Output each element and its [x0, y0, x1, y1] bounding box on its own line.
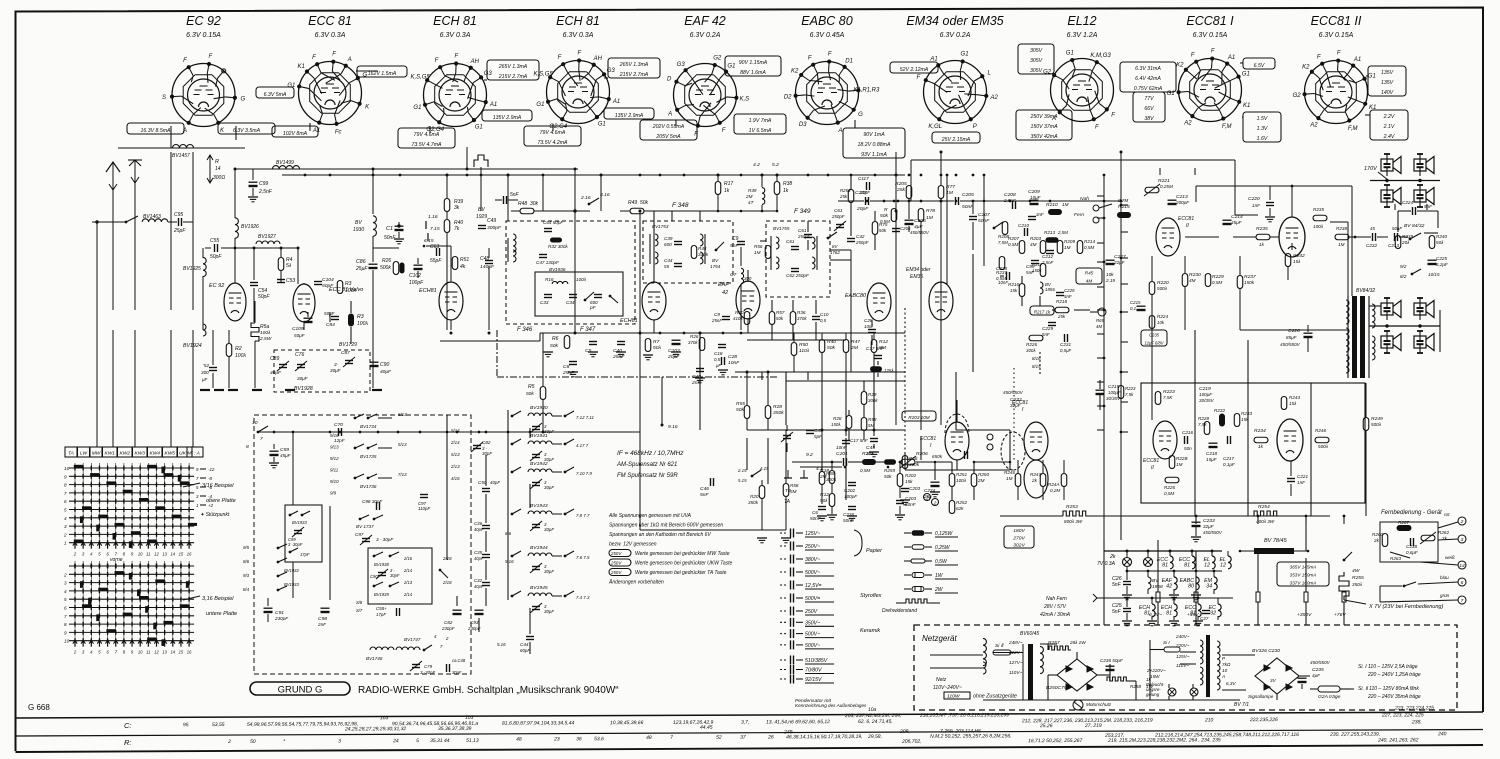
svg-text:R213: R213	[1044, 230, 1055, 235]
antenna 2 symbol (earth aerial)	[134, 160, 136, 310]
svg-text:C225: C225	[1436, 256, 1447, 261]
capacitor C216 50n	[1184, 436, 1186, 444]
svg-text:1930: 1930	[353, 227, 364, 233]
svg-text:T2: T2	[785, 488, 791, 494]
wire coil rows vertical	[507, 410, 509, 600]
svg-text:210: 210	[1204, 717, 1214, 723]
svg-text:R26: R26	[382, 258, 391, 264]
bottom coil row BV1746/BV1747	[370, 647, 394, 650]
svg-text:AM-Spulensatz Nr 621: AM-Spulensatz Nr 621	[616, 462, 677, 468]
svg-text:+350V: +350V	[1297, 612, 1312, 618]
svg-text:44,45: 44,45	[700, 725, 713, 731]
svg-text:RADIO-WERKE GmbH. Schaltplan: RADIO-WERKE GmbH. Schaltplan „Musikschra…	[358, 685, 619, 696]
resistor R208 7.5M	[1002, 222, 1008, 235]
motor protection switch	[1073, 700, 1083, 710]
svg-text:Fc: Fc	[335, 130, 342, 136]
svg-text:9: 9	[64, 474, 67, 479]
lighting transformer core	[1206, 635, 1210, 697]
svg-text:C18: C18	[714, 351, 723, 356]
svg-text:R243: R243	[1289, 395, 1300, 400]
capacitor C49b 5pF	[806, 430, 814, 432]
wire antenna feeds to matrix	[96, 330, 98, 447]
capacitor C89 40pF trimmer	[279, 364, 287, 366]
svg-text:R2: R2	[235, 346, 242, 352]
svg-text:6.3V 0.3A: 6.3V 0.3A	[440, 32, 471, 39]
svg-text:R55: R55	[736, 401, 745, 407]
coil F347 winding	[552, 281, 568, 284]
coil BV1924	[203, 324, 206, 336]
svg-text:R49: R49	[748, 188, 757, 193]
svg-text:grün: grün	[1440, 593, 1450, 598]
svg-text:R207: R207	[1008, 236, 1019, 241]
wire b+ verticals right of centre	[895, 211, 897, 425]
svg-text:5nF: 5nF	[1026, 270, 1035, 275]
svg-text:4M: 4M	[1189, 278, 1196, 283]
switch 2.16/3.16	[573, 209, 576, 212]
svg-text:ECC 81: ECC 81	[308, 14, 352, 28]
resistor R217 1k boxed	[1030, 306, 1054, 315]
svg-text:C7: C7	[730, 272, 737, 278]
svg-text:300Ω: 300Ω	[213, 175, 225, 181]
svg-text:270V: 270V	[1012, 535, 1025, 541]
svg-text:C221: C221	[1297, 474, 1308, 479]
svg-text:2nF: 2nF	[317, 622, 327, 627]
svg-text:77V: 77V	[1144, 96, 1154, 102]
triode ECC81 Valvo	[293, 284, 315, 322]
svg-text:A1: A1	[489, 102, 497, 108]
svg-text:10k: 10k	[1106, 272, 1114, 277]
svg-text:0,5W: 0,5W	[935, 559, 948, 565]
coil L2 choke	[762, 188, 765, 205]
svg-text:14: 14	[170, 552, 175, 557]
wire remote leads	[1438, 522, 1458, 528]
svg-text:BV1943: BV1943	[530, 503, 548, 509]
svg-text:60pF: 60pF	[520, 648, 530, 653]
svg-text:5.16: 5.16	[505, 559, 514, 564]
svg-text:R262: R262	[1438, 530, 1449, 535]
wire af row	[747, 339, 846, 341]
svg-text:R232: R232	[1214, 408, 1225, 413]
svg-text:3k: 3k	[454, 205, 460, 211]
svg-text:52: 52	[716, 735, 722, 741]
capacitor C226 85uF 450/550V	[1304, 332, 1313, 334]
capacitor C214 45uF	[1223, 219, 1232, 221]
svg-text:8: 8	[64, 622, 67, 627]
svg-text:3: 3	[338, 738, 341, 744]
svg-text:BV 78/45: BV 78/45	[1264, 538, 1288, 544]
IF transformer F348 dashed box	[643, 221, 733, 283]
legend Styroflex caps	[780, 584, 787, 586]
capacitor C218 15uF	[1209, 442, 1218, 444]
svg-text:50λ: 50λ	[820, 498, 828, 503]
capacitor C205 50nF	[955, 197, 957, 205]
wire C236 to R258	[1109, 675, 1111, 681]
svg-text:103: 103	[380, 715, 389, 721]
svg-text:R48: R48	[518, 201, 527, 207]
svg-text:2×220V~: 2×220V~	[1146, 668, 1166, 673]
bridge rectifier B250C75A	[1057, 659, 1097, 691]
svg-text:365V 145mA: 365V 145mA	[1290, 565, 1317, 570]
svg-text:R20: R20	[750, 494, 759, 499]
svg-text:G 668: G 668	[28, 703, 50, 712]
antenna bus wire	[118, 147, 245, 149]
svg-text:C226: C226	[1288, 328, 1300, 334]
table rows rotated group	[183, 704, 1447, 749]
capacitor C206 4uF 450/550V	[905, 219, 914, 221]
svg-text:F: F	[722, 128, 726, 134]
capacitor C70 12pF	[338, 428, 340, 436]
svg-text:A1: A1	[612, 99, 620, 105]
resistor R224 10k	[1149, 316, 1155, 329]
resistor R45b 1M boxed	[1076, 268, 1102, 284]
capacitor C27	[1202, 610, 1210, 612]
terminal pair circles	[987, 434, 993, 440]
wire FM bus upper	[235, 168, 578, 170]
svg-text:F,M: F,M	[1222, 124, 1232, 130]
svg-text:50nF: 50nF	[962, 204, 974, 210]
wire det col	[785, 430, 787, 484]
svg-text:50pF: 50pF	[322, 283, 334, 289]
capacitor C220 1nF	[1266, 202, 1274, 204]
svg-text:C97: C97	[355, 532, 364, 537]
wire coupling	[956, 429, 1010, 431]
svg-text:205, 237,N2,M3,2M, 264,: 205, 237,N2,M3,2M, 264,	[844, 713, 901, 719]
capacitor C49 300pF	[478, 225, 486, 227]
wire secondary to bridge2	[1222, 654, 1255, 656]
top right corner wires	[1159, 168, 1161, 175]
svg-text:6.3V 1.2A: 6.3V 1.2A	[1067, 32, 1098, 39]
pentode ECH81 IF amp	[642, 282, 666, 320]
resistor R59 300	[819, 472, 825, 485]
svg-text:BV1924: BV1924	[183, 343, 202, 349]
svg-text:G: G	[241, 96, 246, 102]
svg-text:51,13: 51,13	[466, 738, 479, 744]
svg-text:C5: C5	[585, 348, 592, 354]
svg-text:2.2V: 2.2V	[1383, 114, 1395, 120]
svg-text:BV1927: BV1927	[258, 234, 276, 240]
svg-text:53,6: 53,6	[594, 736, 604, 742]
wire osc bus	[258, 431, 640, 433]
svg-text:A: A	[1221, 674, 1225, 679]
svg-text:R49: R49	[628, 200, 637, 206]
svg-text:R22B: R22B	[1176, 456, 1188, 461]
coil BV1457	[173, 145, 194, 148]
wire xtras	[807, 221, 809, 232]
svg-text:BV: BV	[355, 220, 362, 226]
svg-text:20pF: 20pF	[856, 206, 869, 212]
svg-text:KW2: KW2	[120, 451, 131, 457]
switch BV1754	[715, 249, 718, 252]
svg-text:Werte gemessen bei gedrückter: Werte gemessen bei gedrückter UKW Taste	[635, 561, 732, 567]
svg-text:BV60/45: BV60/45	[1020, 631, 1039, 637]
wire det2	[863, 381, 865, 391]
capacitor C28b 10nF	[868, 329, 876, 331]
capacitor 5nF top	[503, 196, 505, 204]
svg-text:2/18: 2/18	[442, 580, 452, 585]
svg-text:2/14: 2/14	[403, 592, 413, 597]
svg-text:230pF: 230pF	[274, 616, 289, 621]
triode EABC80 detector	[867, 283, 891, 321]
svg-text:R16: R16	[545, 277, 554, 282]
svg-text:100μF: 100μF	[1108, 390, 1121, 395]
svg-text:79V 4.6mA: 79V 4.6mA	[414, 132, 440, 138]
svg-text:135V: 135V	[1381, 80, 1394, 86]
svg-text:800λ 3W: 800λ 3W	[1064, 519, 1083, 524]
svg-text:2/16: 2/16	[403, 556, 413, 561]
svg-text:KW3: KW3	[135, 451, 146, 457]
heater EL12 row1a	[1212, 556, 1215, 569]
svg-text:7: 7	[64, 614, 67, 619]
svg-text:EAF 42: EAF 42	[684, 14, 726, 28]
resistor R233 15k	[1234, 414, 1240, 427]
resistor R230 4M	[1182, 274, 1188, 287]
svg-text:R223: R223	[1125, 386, 1136, 391]
svg-text:N,M,2 50,252, 255,257,26 8,2M,: N,M,2 50,252, 255,257,26 8,2M,256,	[930, 733, 1011, 739]
svg-text:1M: 1M	[1062, 202, 1069, 207]
capacitor C44 55pF	[674, 263, 682, 265]
svg-text:25k: 25k	[1057, 314, 1066, 319]
svg-text:C53: C53	[286, 278, 295, 284]
svg-text:10nF: 10nF	[728, 360, 740, 366]
capacitor C55 50pF	[205, 247, 211, 249]
svg-text:2M: 2M	[819, 474, 827, 479]
circled 2 terminal	[924, 494, 931, 501]
svg-text:1.6V: 1.6V	[1257, 136, 1268, 142]
svg-text:0,25W: 0,25W	[935, 545, 951, 551]
svg-text:R32 300λ: R32 300λ	[548, 244, 568, 249]
antenna 1 symbol	[112, 162, 114, 310]
svg-text:102V 8mA: 102V 8mA	[283, 131, 308, 137]
resistor R263	[1390, 552, 1410, 558]
svg-text:4M: 4M	[1030, 242, 1037, 247]
svg-text:C213: C213	[1388, 243, 1399, 248]
svg-text:5/13: 5/13	[398, 442, 407, 447]
svg-text:50pF: 50pF	[210, 254, 222, 260]
trimmer C82 3-30pF	[473, 445, 481, 447]
pin connector leads tube row	[170, 126, 172, 148]
svg-text:0,5M: 0,5M	[860, 468, 870, 473]
svg-text:R224: R224	[1157, 314, 1168, 319]
svg-text:1.16: 1.16	[428, 214, 438, 220]
svg-text:302V: 302V	[1013, 543, 1025, 549]
capacitor C229 5nF	[1048, 322, 1056, 324]
wire mains input	[930, 667, 983, 669]
capacitor C227 22pF	[1106, 259, 1115, 261]
capacitor C203b	[901, 488, 909, 490]
svg-text:100λ: 100λ	[956, 478, 967, 483]
capacitor C109 50uF	[304, 317, 313, 319]
capacitor C232 crossover	[1372, 233, 1374, 241]
capacitor column C36/C35/C32	[482, 525, 490, 527]
svg-text:3nF: 3nF	[1036, 212, 1044, 217]
svg-text:127V~: 127V~	[1009, 660, 1023, 665]
legend resistor wattages	[904, 532, 911, 534]
junction dots AF bus	[844, 466, 847, 469]
svg-text:F: F	[332, 52, 336, 58]
svg-text:88V 1.6mA: 88V 1.6mA	[740, 70, 766, 76]
svg-text:C1: C1	[386, 226, 393, 232]
capacitor C213 crossover	[1394, 233, 1396, 241]
resistor R3 100k	[349, 314, 354, 326]
resistor R30 410ohm	[744, 312, 750, 325]
svg-text:C17 5nF: C17 5nF	[866, 346, 885, 351]
capacitor C52 300pF	[209, 367, 217, 369]
svg-text:50k: 50k	[640, 200, 649, 206]
svg-text:R56: R56	[754, 244, 763, 249]
svg-text:R263: R263	[1390, 556, 1401, 561]
svg-text:2: 2	[445, 636, 449, 641]
svg-text:G2: G2	[713, 55, 722, 61]
svg-text:2: 2	[227, 739, 231, 745]
svg-text:C98 30pF: C98 30pF	[362, 499, 383, 504]
svg-text:9.2: 9.2	[806, 452, 813, 458]
matrix lower bottom pin row	[74, 641, 76, 647]
svg-text:C218: C218	[1206, 451, 1217, 456]
svg-text:206,702,: 206,702,	[901, 739, 921, 745]
svg-text:90V 1.15mA: 90V 1.15mA	[739, 60, 768, 66]
svg-text:350k: 350k	[773, 410, 784, 416]
svg-text:0,5μF: 0,5μF	[1060, 348, 1072, 353]
svg-text:100k: 100k	[345, 288, 356, 294]
svg-text:vorne: vorne	[110, 557, 123, 563]
resistor R77 1M	[938, 186, 944, 199]
svg-text:0,7M: 0,7M	[1118, 198, 1128, 203]
svg-text:BV1941: BV1941	[530, 433, 548, 439]
svg-text:103: 103	[465, 715, 474, 721]
svg-text:6.3V 0.2A: 6.3V 0.2A	[690, 32, 721, 39]
coil BV1925 vertical	[202, 248, 204, 258]
resistor R201 0.5M	[863, 460, 876, 465]
left switch sub-box	[285, 505, 322, 562]
svg-text:5/13: 5/13	[451, 452, 460, 457]
capacitor C26 5nF	[1123, 581, 1131, 583]
resistor R236 100ohm	[1313, 215, 1327, 221]
wire bus verticals above	[1157, 540, 1159, 592]
wire block verticals	[292, 432, 294, 505]
resistor R255 350ohm 4W	[1343, 559, 1346, 562]
svg-text:ohne Zusatzgeräte: ohne Zusatzgeräte	[973, 694, 1017, 700]
capacitor C236 50uF	[1106, 665, 1115, 667]
svg-text:8/4: 8/4	[243, 587, 250, 592]
svg-text:C9: C9	[732, 236, 739, 242]
svg-text:32μF: 32μF	[1203, 524, 1215, 529]
svg-text:2: 2	[1460, 519, 1464, 525]
svg-text:R238: R238	[1336, 226, 1347, 231]
potentiometer R221 0.25M	[1145, 187, 1159, 193]
svg-text:305V: 305V	[1030, 48, 1043, 54]
capacitor C206b	[892, 228, 900, 230]
svg-text:R214: R214	[1084, 239, 1095, 244]
svg-text:240V~: 240V~	[1175, 634, 1190, 639]
svg-text:C76: C76	[295, 352, 304, 358]
svg-text:11: 11	[146, 552, 150, 557]
svg-text:G1: G1	[1368, 73, 1376, 79]
resistor R235 1k	[1256, 234, 1270, 240]
svg-text:9/16: 9/16	[330, 433, 339, 438]
svg-text:380V~: 380V~	[805, 557, 820, 563]
coil BV1856	[1040, 282, 1043, 294]
svg-text:40pF: 40pF	[474, 584, 484, 589]
capacitor C58 250pF	[804, 234, 812, 236]
capacitor C76 trimmer	[297, 364, 305, 366]
svg-text:25pF: 25pF	[173, 228, 186, 234]
extra bus y211 dots	[717, 210, 720, 213]
wire af jack bus	[800, 466, 842, 468]
svg-text:81: 81	[1184, 563, 1190, 569]
boxed 110W label	[944, 692, 970, 699]
svg-text:C39: C39	[664, 236, 673, 241]
svg-text:2: 2	[63, 572, 67, 577]
svg-text:EL12: EL12	[1067, 14, 1096, 28]
svg-text:EM34 oder EM35: EM34 oder EM35	[906, 14, 1003, 28]
svg-text:4M: 4M	[1086, 279, 1093, 284]
svg-text:6.3V 0.45A: 6.3V 0.45A	[810, 32, 845, 39]
svg-text:7/13: 7/13	[398, 472, 407, 477]
svg-text:1.3V: 1.3V	[1257, 126, 1268, 132]
svg-text:C44: C44	[664, 258, 673, 263]
junction dots pass 2	[304, 174, 307, 177]
svg-text:μF: μF	[715, 363, 721, 368]
svg-text:F: F	[1211, 49, 1215, 55]
svg-text:12: 12	[1220, 563, 1226, 569]
capacitor C50 40pF	[482, 488, 490, 490]
wire det row	[746, 372, 748, 405]
svg-text:C64 50pF: C64 50pF	[543, 220, 564, 225]
svg-text:G2A träge: G2A träge	[1318, 694, 1341, 700]
svg-text:C70: C70	[334, 422, 343, 428]
svg-text:236,205,M7 ,737, 20 8,218,219,: 236,205,M7 ,737, 20 8,218,219,216,299	[919, 712, 1009, 718]
svg-text:12: 12	[154, 650, 159, 655]
label 3/16 Beispiel obere Platte	[183, 483, 200, 487]
svg-text:25k: 25k	[896, 187, 905, 193]
svg-text:250V: 250V	[804, 609, 818, 615]
svg-text:42: 42	[722, 290, 728, 296]
wire last	[1099, 380, 1101, 389]
fuse Si II	[993, 650, 1011, 655]
svg-text:R28: R28	[833, 416, 842, 421]
svg-text:ECC81 I: ECC81 I	[1186, 14, 1234, 28]
svg-text:F: F	[1337, 51, 1341, 57]
svg-text:16,71,2 50,252, 255,267: 16,71,2 50,252, 255,267	[1028, 738, 1082, 744]
resistor R249 500 right	[1363, 418, 1369, 431]
svg-text:310k: 310k	[698, 252, 709, 257]
svg-text:R58: R58	[868, 417, 877, 422]
long AF bus to amp	[905, 469, 1010, 471]
svg-text:150λ: 150λ	[831, 422, 841, 427]
dotted divider ECC81 I	[1013, 368, 1015, 462]
svg-text:24,25,28,27,29,29,30,31,32: 24,25,28,27,29,29,30,31,32	[344, 726, 406, 732]
svg-text:TA: TA	[784, 499, 791, 505]
svg-text:C89: C89	[270, 356, 279, 362]
svg-text:7.12 7.11: 7.12 7.11	[576, 415, 595, 420]
svg-text:G2: G2	[1043, 69, 1052, 75]
wire tone rails	[1151, 256, 1153, 281]
svg-text:C205: C205	[962, 192, 974, 198]
pentode EAF42 IF	[736, 281, 760, 319]
capacitor C221 1nF	[1287, 478, 1295, 480]
svg-text:10: 10	[64, 466, 70, 471]
wire ecc81i	[956, 400, 958, 422]
resistor R49 50k	[630, 208, 644, 214]
capacitor C210	[1024, 228, 1026, 236]
svg-text:C220: C220	[1248, 196, 1260, 202]
svg-text:1M: 1M	[1338, 242, 1345, 247]
svg-text:R235: R235	[1256, 226, 1268, 232]
resistor R234 1k	[1254, 437, 1268, 443]
svg-text:R44: R44	[698, 246, 707, 251]
svg-text:450/550V: 450/550V	[1310, 660, 1331, 665]
switch row BV1736	[354, 477, 357, 480]
